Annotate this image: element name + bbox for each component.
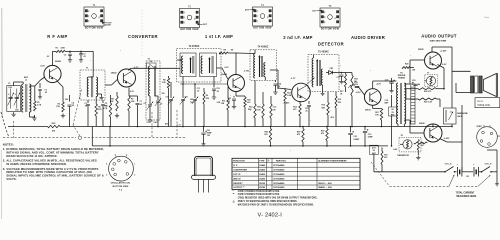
label AUDIO DRIVER (351, 35, 385, 40)
T3 secondary box (200, 53, 217, 77)
scan artifact top right (484, 16, 489, 19)
svg-text:2SA52: 2SA52 (259, 168, 265, 171)
driver transformer T6 (397, 83, 406, 127)
resistor AGC 100K with ground (56, 48, 73, 63)
svg-text:.05: .05 (72, 105, 75, 107)
resistor R28 (264, 126, 271, 147)
label C16 5MF (385, 100, 390, 105)
label R19b (331, 116, 335, 119)
svg-text:1 st I.F. AMP: 1 st I.F. AMP (205, 34, 233, 39)
svg-text:.05: .05 (305, 111, 308, 113)
speaker plug P1 bottom view (477, 125, 500, 147)
label R5b (85, 103, 88, 108)
svg-text:R. F.: R. F. (233, 165, 238, 167)
svg-text:21Y004600: 21Y004600 (273, 177, 285, 180)
svg-text:R23 1.5K: R23 1.5K (424, 102, 433, 104)
ground T1 (98, 94, 104, 100)
label AUDIO OUTPUT (421, 33, 457, 42)
svg-text:.05: .05 (273, 109, 276, 111)
svg-text:1ST I.F.: 1ST I.F. (233, 174, 241, 176)
svg-text:C8: C8 (144, 103, 146, 105)
T4 secondary winding (261, 56, 265, 80)
battery tap label box (389, 107, 397, 116)
T2 winding (149, 66, 156, 100)
label +0.9V (356, 92, 362, 94)
resistor R9 1M top (219, 49, 236, 54)
svg-text:470: 470 (247, 101, 250, 104)
Q7 emitter wire (440, 105, 463, 172)
svg-text:50MF: 50MF (368, 137, 374, 139)
label thermistor (397, 155, 410, 157)
svg-text:100K: 100K (61, 48, 66, 50)
svg-text:2SA52: 2SA52 (111, 71, 117, 74)
svg-text:WITH NO SIGNAL AND VOL. CONT.: WITH NO SIGNAL AND VOL. CONT. AT MINIMUM… (6, 150, 98, 154)
thermistor T7 (425, 72, 438, 86)
svg-text:470: 470 (321, 132, 324, 135)
resistor R14 emitter (293, 101, 301, 127)
svg-text:470: 470 (264, 133, 267, 136)
svg-text:2SA50: 2SA50 (221, 73, 227, 76)
bypass cap C19 (385, 78, 395, 93)
Q5 emitter resistor R21 (373, 105, 383, 126)
resistor R17 AVC (340, 73, 347, 96)
svg-text:220: 220 (421, 145, 424, 147)
svg-text:PART NO.: PART NO. (276, 160, 287, 163)
resistor R6 4.7K (103, 95, 112, 127)
socket T3 bottom view (180, 5, 208, 31)
svg-text:△: △ (232, 200, 235, 203)
svg-text:FIRST PRODUCTION RUN WITH: FIRST PRODUCTION RUN WITH 500. (238, 194, 280, 196)
speaker SP1 (452, 71, 498, 96)
label C12b (190, 99, 194, 104)
svg-text:CONVERTER: CONVERTER (128, 34, 158, 39)
svg-text:2: 2 (134, 174, 135, 176)
wire L1 to Q1 base (29, 77, 44, 95)
svg-text:R8: R8 (163, 80, 165, 82)
svg-text:VOLTAGE MEASUREMENTS MADE WITH: VOLTAGE MEASUREMENTS MADE WITH A V.T.V.M… (6, 167, 98, 171)
Q7 collector wire (432, 124, 434, 127)
svg-text:DURING SERVICING, TOTAL BATTER: DURING SERVICING, TOTAL BATTERY DRAIN SH… (6, 147, 104, 151)
label -9.4V on rail (176, 124, 182, 126)
svg-text:BOTTOM VIEW: BOTTOM VIEW (85, 28, 104, 30)
svg-text:-0.03V: -0.03V (444, 138, 451, 140)
IF transformer T4 dashed box (250, 45, 276, 80)
svg-text:1.: 1. (3, 147, 6, 151)
label T6 driver trans (398, 72, 406, 79)
svg-text:ALTERNATE TRANSFORMERS: ALTERNATE TRANSFORMERS (318, 160, 347, 163)
antenna coil L1 (14, 76, 31, 117)
capacitor C7 (129, 96, 142, 127)
svg-text:C1: C1 (8, 83, 10, 85)
svg-text:R3: R3 (56, 48, 58, 50)
resistor R30 (321, 126, 328, 147)
scan edge artifact left (1, 8, 2, 219)
label 1st IF AMP (205, 34, 233, 39)
svg-text:C9: C9 (160, 104, 162, 106)
T5 secondary winding (319, 60, 324, 95)
svg-text:AVC: AVC (165, 123, 169, 126)
svg-text:2SA50: 2SA50 (259, 177, 265, 180)
svg-text:+0.25V: +0.25V (440, 50, 447, 52)
svg-text:470: 470 (293, 108, 296, 111)
IF transformer T3 dashed box (177, 45, 222, 82)
electrolytic C21 (201, 126, 212, 146)
svg-text:DETECTOR: DETECTOR (318, 41, 344, 46)
svg-text:C6: C6 (150, 61, 152, 63)
coupling capacitor C18 (352, 82, 359, 88)
svg-text:SW1-A: SW1-A (445, 162, 452, 165)
svg-text:R10: R10 (247, 100, 250, 102)
service notes text (3, 143, 105, 181)
svg-text:R11: R11 (222, 101, 225, 103)
svg-text:*: * (233, 191, 234, 193)
wire top AGC rail (53, 50, 94, 52)
svg-text:T8: T8 (401, 135, 403, 137)
svg-text:-0.7V: -0.7V (291, 78, 296, 80)
diode CR1 detector (326, 68, 339, 74)
svg-text:AUDIO OUTPUT: AUDIO OUTPUT (421, 33, 457, 38)
Q6 emitter wire (438, 65, 445, 89)
svg-text:-9.2V: -9.2V (442, 64, 447, 66)
label 3.3K (217, 102, 221, 104)
label T2 330 (162, 93, 165, 95)
transformer T1 dashed box (80, 68, 105, 100)
detector transformer T5 dashed box (308, 50, 339, 91)
wire into T1 primary (92, 51, 94, 77)
svg-text:OUTPUT **: OUTPUT ** (233, 187, 244, 189)
capacitor C6 box on wire (147, 61, 157, 68)
svg-text:R F AMP: R F AMP (47, 34, 68, 39)
crease dotted vertical (141, 10, 143, 58)
resistor R19 below Q4 (322, 92, 330, 127)
transistor Q2 converter (111, 67, 139, 87)
label near Q4 bottom (305, 108, 308, 113)
capacitor Q4 em (307, 101, 311, 127)
socket T5 bottom view (312, 5, 340, 31)
svg-text:330: 330 (162, 93, 165, 95)
svg-text:-0.75V: -0.75V (244, 71, 251, 73)
resistor R1 4.7K (34, 95, 42, 111)
svg-text:2.2K: 2.2K (162, 82, 167, 84)
svg-text:R5: R5 (98, 107, 100, 109)
svg-text:V- 2402-I: V- 2402-I (258, 213, 283, 219)
parts table (232, 158, 360, 189)
svg-text:470: 470 (384, 156, 387, 159)
svg-text:.05: .05 (83, 56, 86, 58)
svg-text:CR1: CR1 (330, 68, 334, 70)
label C10 (166, 97, 169, 99)
svg-text:VOICE COIL: VOICE COIL (477, 105, 491, 107)
transistor Q1 (40, 60, 61, 82)
electrolytic C20 (412, 80, 420, 86)
Q4 collector arrow into T5 (306, 78, 315, 86)
junction dots rails (109, 126, 392, 147)
svg-text:SIGNAL INPUT) VOLUME CONTROL A: SIGNAL INPUT) VOLUME CONTROL AT MIN., BA… (6, 174, 104, 178)
T3 primary box (180, 53, 196, 77)
wire battery line (374, 154, 445, 171)
svg-text:T7: T7 (427, 72, 429, 74)
svg-text:.02: .02 (216, 91, 219, 93)
T3 trimmer C11 (180, 77, 186, 127)
label C17b .01 (343, 82, 346, 84)
svg-text:1M: 1M (231, 49, 234, 51)
svg-text:-4.2V: -4.2V (376, 82, 381, 85)
svg-text:C20: C20 (412, 80, 415, 82)
svg-text:5: 5 (106, 174, 107, 176)
svg-text:6.8K: 6.8K (287, 95, 292, 97)
capacitor at 88 (86, 100, 90, 127)
svg-text:**: ** (233, 194, 235, 196)
svg-text:18Y004800: 18Y004800 (273, 182, 285, 185)
label C11 .05 (197, 88, 200, 93)
wire Q3 collector up (235, 53, 237, 75)
battery B1 cells (457, 163, 482, 177)
svg-text:EARPHONE: EARPHONE (457, 112, 468, 115)
svg-text:R19: R19 (322, 105, 325, 107)
svg-text:2N118 — 900: 2N118 — 900 (318, 183, 332, 185)
earphone jack (444, 108, 469, 127)
oscillator trimmer C9 (155, 96, 162, 127)
svg-text:ALIGN: ALIGN (105, 23, 112, 26)
label -0.2V Q3 (224, 67, 229, 69)
T4 primary winding (254, 50, 261, 78)
svg-text:C19: C19 (385, 79, 388, 81)
transistor Q3 1st IF (221, 71, 250, 92)
switch SW1-A (444, 162, 456, 172)
table footnotes (232, 191, 318, 207)
T6 shield ladder (411, 84, 415, 124)
wire Q5 supply (391, 95, 393, 146)
svg-text:R9: R9 (224, 49, 226, 51)
AVC label (165, 123, 169, 126)
svg-text:-9.4V: -9.4V (393, 148, 398, 151)
svg-text:(75Ω) RESISTOR USED WITH 50: (75Ω) RESISTOR USED WITH 500 OR 2N486 OU… (238, 197, 318, 200)
ground below L1 (29, 115, 36, 120)
svg-text:R22 270: R22 270 (424, 91, 431, 93)
label 2-14 C1A (8, 94, 16, 96)
svg-text:.05: .05 (45, 92, 48, 94)
label RF AMP (47, 34, 68, 39)
svg-text:(5: (5 (194, 19, 196, 21)
wire T6 to Q6 base (404, 60, 424, 84)
label C3 (45, 90, 48, 95)
wire T1 secondary down (95, 100, 101, 127)
resistor R13 (284, 88, 292, 127)
wire T4 top feed (236, 52, 255, 55)
mechanical gang dashed link (1, 89, 186, 139)
svg-text:2 nd I.F. AMP: 2 nd I.F. AMP (283, 35, 313, 40)
svg-text:2N109: 2N109 (365, 110, 371, 112)
transistor Q6 output (418, 49, 447, 69)
label 2SA49 socket1 (0, 0, 1, 1)
label -9.4V near battery (393, 148, 398, 151)
resistor mid 204 (203, 88, 210, 127)
ground below C1 (11, 112, 15, 116)
transistor Q4 2nd IF (284, 78, 311, 104)
svg-text:2SA50: 2SA50 (284, 102, 290, 105)
svg-text:-0.2V: -0.2V (224, 67, 229, 69)
resistor R22 (418, 88, 437, 93)
svg-text:+0.9V: +0.9V (356, 92, 362, 94)
svg-text:(5: (5 (334, 18, 336, 20)
wire T4 to Q4 base (270, 70, 291, 90)
svg-text:2SA49: 2SA49 (259, 164, 265, 167)
svg-text:FUNCTION: FUNCTION (233, 161, 245, 163)
svg-text:4: 4 (106, 163, 107, 166)
T5 primary winding (312, 55, 318, 87)
electrolytic C23 (363, 126, 374, 147)
svg-text:R27: R27 (384, 155, 387, 157)
svg-text:BOTTOM VIEW: BOTTOM VIEW (253, 28, 272, 30)
svg-text:.05: .05 (197, 91, 200, 93)
svg-text:2SA50: 2SA50 (259, 173, 265, 176)
svg-text:C15: C15 (273, 107, 276, 109)
wire Q2 collector (129, 68, 178, 70)
svg-text:-0.6V: -0.6V (40, 66, 45, 68)
svg-text:MATCHED PAIR OF 2N671 TO: MATCHED PAIR OF 2N671 TO WESTINGHOUSE SP… (238, 204, 314, 207)
oscillator coil bottom view (106, 154, 135, 191)
label osc values (147, 122, 159, 124)
transformer T1 windings (87, 76, 97, 100)
resistor R2 emitter Q1 (56, 81, 65, 118)
svg-text:R2: R2 (58, 104, 60, 106)
svg-text:DRAIN SHOULD BE 11 MA. APPROX.: DRAIN SHOULD BE 11 MA. APPROX. (6, 154, 57, 158)
svg-text:2N185: 2N185 (418, 49, 424, 51)
svg-text:DRIVER *: DRIVER * (233, 183, 243, 185)
wire to ground right (487, 150, 499, 186)
label DETECTOR (318, 41, 344, 46)
svg-text:1: 1 (134, 164, 135, 166)
resistor R8 (162, 76, 170, 127)
T4 drop wires (248, 80, 256, 126)
capacitor C13 (228, 96, 237, 109)
svg-text:INDICATED TO GND. WITH TUNING: INDICATED TO GND. WITH TUNING CAPACITOR … (6, 170, 92, 174)
label 455 mark (0, 0, 1, 1)
resistor R11 base (221, 87, 229, 127)
svg-text:NOTES:: NOTES: (3, 143, 14, 147)
label 0V (130, 91, 135, 93)
svg-text:2N109: 2N109 (259, 183, 265, 185)
svg-text:100MF: 100MF (353, 139, 360, 141)
capacitor C14 (273, 80, 282, 94)
label 220 near C4 (65, 99, 68, 101)
svg-text:OSCILLATOR COIL: OSCILLATOR COIL (111, 182, 132, 185)
svg-text:2.: 2. (3, 158, 6, 162)
wire T6 to Q7 base (404, 120, 424, 133)
label total current (456, 192, 477, 199)
transistor Q5 audio driver (364, 82, 381, 111)
socket T4 bottom view (245, 4, 273, 30)
svg-text:MATCHED PAIR: MATCHED PAIR (430, 40, 447, 43)
svg-text:C10: C10 (166, 97, 169, 99)
svg-text:B1: B1 (467, 176, 469, 178)
wire mid horizontal (180, 83, 227, 85)
Q5 collector wire to T6 (373, 81, 397, 89)
svg-text:220: 220 (65, 99, 68, 101)
svg-text:SPKR: SPKR (477, 126, 483, 128)
resistor R20 feedback (402, 64, 416, 72)
svg-text:C18: C18 (354, 82, 357, 84)
wire Q2 into T3 (177, 59, 182, 68)
switch SW1-B (481, 163, 497, 172)
svg-text:BOTTOM VIEW: BOTTOM VIEW (321, 29, 340, 31)
Q6 collector wire (432, 47, 452, 108)
dashed current measure path (371, 162, 490, 186)
transistor Q7 output (419, 123, 450, 142)
svg-text:C17: C17 (337, 77, 340, 79)
svg-text:ALL CAPACITANCE VALUES IN MFD.: ALL CAPACITANCE VALUES IN MFD., ALL RESI… (6, 158, 96, 162)
electrolytic C22 (348, 126, 360, 147)
wire to Q5 base (359, 87, 365, 95)
svg-text:.01: .01 (343, 82, 346, 84)
wire T3 to Q3 base (217, 68, 228, 79)
svg-text:T5 455KC: T5 455KC (318, 50, 329, 53)
tuning capacitor C1 gang box (7, 86, 21, 112)
svg-text:470: 470 (98, 108, 101, 111)
svg-text:J1: J1 (450, 111, 452, 113)
tiny gray specks scan noise (60, 50, 411, 151)
resistor R24 in T8 box (416, 140, 424, 160)
wire Q1 base cap (38, 83, 42, 99)
resistor R10 emitter (236, 92, 251, 127)
svg-text:.05: .05 (105, 106, 108, 108)
svg-text:SW1-B: SW1-B (485, 163, 492, 165)
svg-text:R20: R20 (405, 64, 408, 66)
svg-text:MEASURED HERE: MEASURED HERE (457, 195, 477, 198)
capacitor C3 with ground (79, 51, 86, 62)
svg-text:470: 470 (297, 133, 300, 136)
svg-text:C9: C9 (147, 122, 149, 124)
label C9 (160, 104, 162, 106)
resistor R15 (257, 92, 264, 127)
svg-text:IN OHMS UNLESS OTHERWISE SPECI: IN OHMS UNLESS OTHERWISE SPECIFIED. (6, 162, 67, 166)
wire rail A (-9.4V bus) (8, 126, 452, 128)
svg-text:4.7K: 4.7K (103, 107, 108, 110)
svg-text:BOTTOM VIEW: BOTTOM VIEW (113, 186, 130, 188)
resistor R16 (270, 96, 276, 127)
oscillator coil T2 dashed box (146, 59, 160, 120)
label 2nd IF AMP (283, 35, 313, 40)
svg-text:TYPE: TYPE (259, 161, 265, 163)
svg-text:R13: R13 (287, 93, 290, 95)
svg-text:C11: C11 (185, 97, 188, 99)
volume control R18 (339, 73, 360, 127)
wire Q1 collector up (47, 51, 53, 65)
svg-text:2SA49: 2SA49 (55, 60, 61, 63)
svg-text:THERMISTOR: THERMISTOR (397, 155, 410, 157)
resistor R27 (381, 148, 388, 172)
svg-text:2N671 TO WESTINGHOUSE OWN: 2N671 TO WESTINGHOUSE OWN SPECIFICATIONS… (238, 200, 298, 203)
wire T1 to Q2 base (105, 80, 117, 86)
battery feed label box (370, 145, 379, 155)
svg-text:21Y004600: 21Y004600 (273, 173, 285, 176)
svg-text:CONVERTER: CONVERTER (233, 169, 247, 171)
svg-text:TOTAL CURRENT: TOTAL CURRENT (456, 192, 476, 195)
resistor R29 (297, 126, 304, 147)
svg-text:TRANS: TRANS (398, 77, 406, 80)
thermistor T8 (399, 135, 421, 152)
svg-text:3.: 3. (3, 167, 6, 171)
label CONVERTER (128, 34, 158, 39)
svg-text:R7: R7 (131, 99, 133, 101)
label C1 osc section (8, 83, 10, 85)
voice coil label box (475, 98, 500, 108)
capacitor C5 (101, 100, 107, 127)
socket T1 bottom view (84, 4, 112, 30)
svg-text:.05: .05 (140, 104, 143, 106)
svg-text:1.5K: 1.5K (56, 106, 61, 108)
svg-text:2N185: 2N185 (259, 187, 266, 189)
